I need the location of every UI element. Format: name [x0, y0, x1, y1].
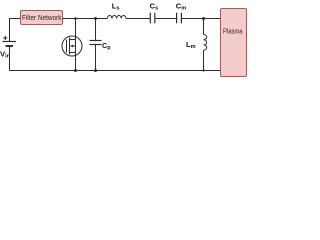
inductor Lm [204, 35, 207, 51]
MOSFET body arrow [70, 45, 73, 48]
wire from battery positive up and right to filter network input [10, 19, 21, 42]
capacitor Cm [177, 13, 182, 24]
wire filter output to Ls [63, 18, 108, 20]
capacitor Cp [90, 41, 102, 45]
wire bottom rail [10, 70, 221, 72]
svg-text:Filter Network: Filter Network [22, 15, 62, 22]
filter network box [21, 11, 63, 25]
wire Cp bottom to rail [95, 45, 97, 71]
inductor Ls [107, 15, 126, 18]
wire Cp top [95, 19, 97, 41]
plasma box [221, 9, 247, 77]
svg-text:+: + [3, 32, 8, 42]
wire Lm top [203, 19, 205, 35]
wire MOSFET drain [75, 19, 77, 71]
wire Cs to Cm [155, 18, 177, 20]
transistor Q1 MOSFET [62, 36, 82, 56]
battery Vin [3, 42, 17, 47]
node Lm top junction [202, 17, 205, 20]
node Cp bottom junction [94, 69, 97, 72]
wire Ls to Cs [126, 18, 150, 20]
wire from battery negative down to bottom rail [9, 46, 11, 71]
node Cp top junction [94, 17, 97, 20]
svg-text:Plasma: Plasma [223, 28, 243, 35]
capacitor Cs [150, 13, 155, 24]
node drain junction [74, 17, 77, 20]
node Lm bottom junction [202, 69, 204, 71]
wire Lm bottom to rail [203, 50, 205, 70]
wire Cm to plasma box [181, 18, 220, 20]
node source junction [74, 69, 77, 72]
